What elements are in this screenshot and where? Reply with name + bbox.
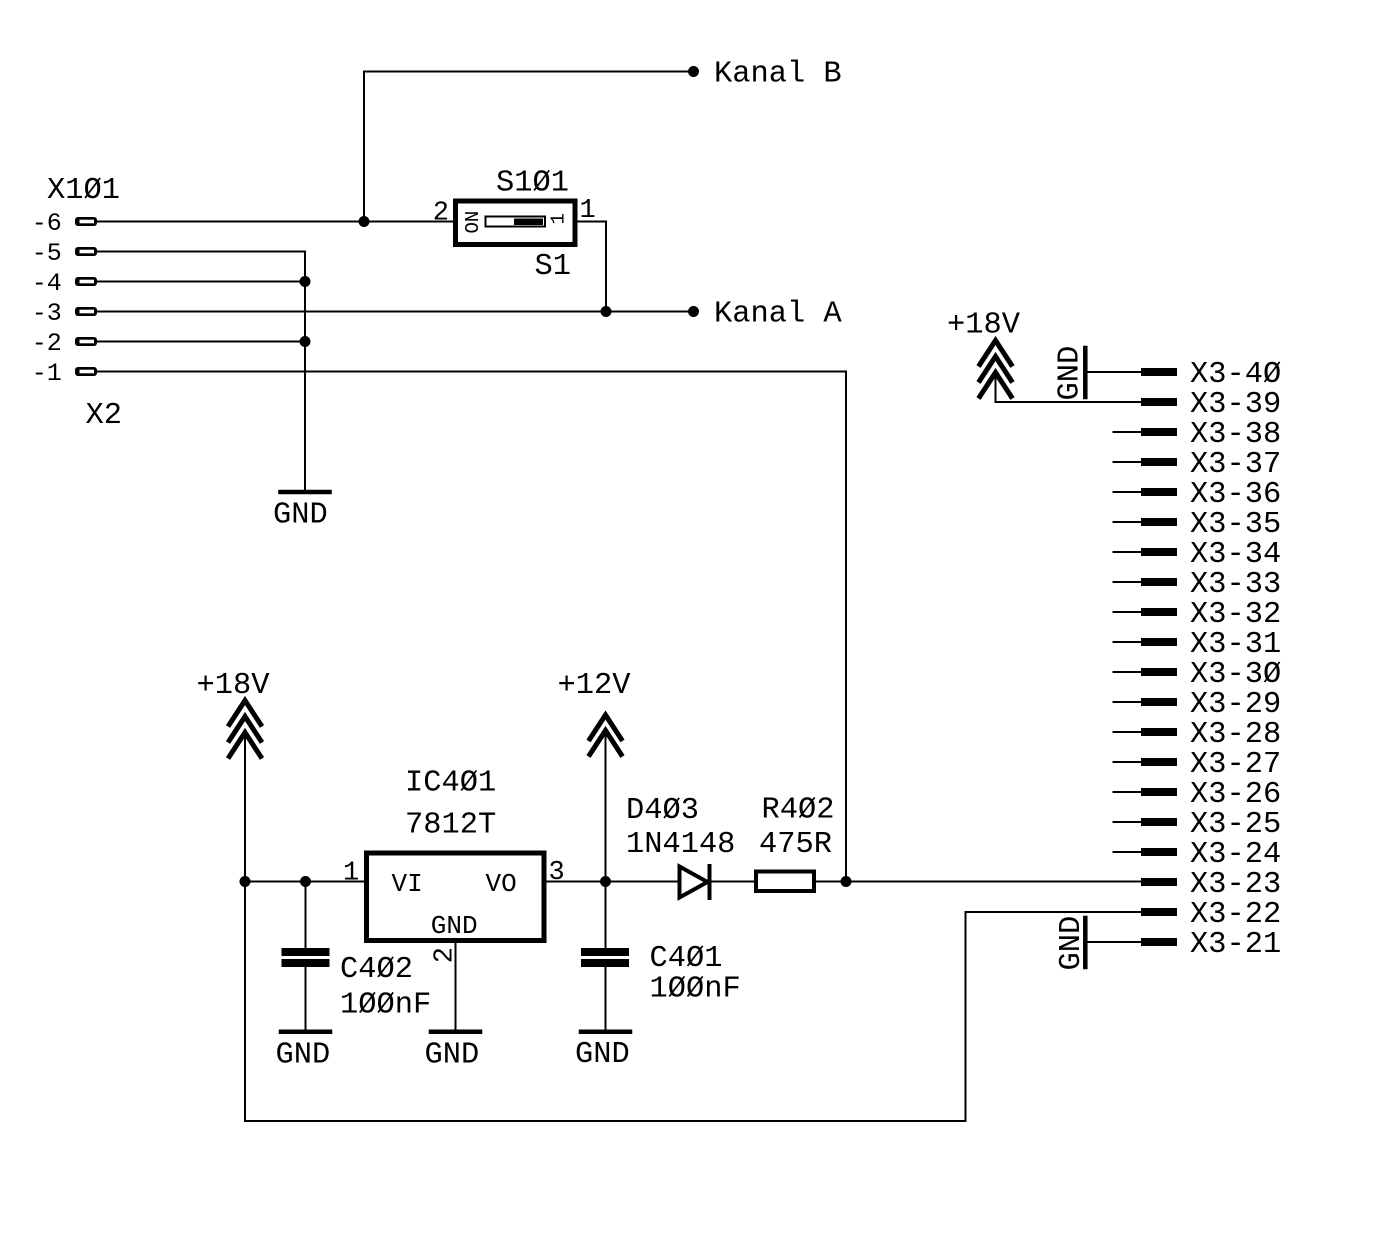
connector X101 pin -2 pad [75, 337, 97, 346]
wire stub X3-26 [1114, 791, 1142, 793]
svg-text:X3-23: X3-23 [1190, 868, 1281, 902]
svg-text:1N4148: 1N4148 [626, 828, 735, 862]
svg-text:X2: X2 [86, 399, 122, 433]
wire [605, 967, 607, 1030]
svg-text:3: 3 [549, 858, 565, 888]
power symbol +18V arrow [979, 341, 1013, 367]
connector X3 pin X3-30 pad [1141, 668, 1177, 676]
svg-text:X3-38: X3-38 [1190, 418, 1281, 452]
svg-text:-2: -2 [32, 329, 62, 358]
wire [97, 252, 305, 490]
capacitor C402 plates [282, 948, 330, 956]
power symbol +12V arrow [589, 715, 623, 741]
wire [364, 72, 694, 222]
connector X3 pin X3-38 pad [1141, 428, 1177, 436]
wire stub X3-36 [1114, 491, 1142, 493]
node junction [600, 876, 611, 887]
svg-text:X1Ø1: X1Ø1 [47, 174, 120, 208]
connector X3 pin X3-40 pad [1141, 368, 1177, 376]
svg-text:X3-35: X3-35 [1190, 508, 1281, 542]
wire stub X3-31 [1114, 641, 1142, 643]
node Kanal A endpoint [688, 306, 699, 317]
wire [305, 882, 307, 949]
wire [578, 222, 607, 312]
wire [816, 881, 846, 883]
connector X3 pin X3-23 pad [1141, 878, 1177, 886]
wire stub X3-27 [1114, 761, 1142, 763]
svg-text:X3-22: X3-22 [1190, 898, 1281, 932]
ground symbol below C402 [281, 1030, 330, 1035]
svg-text:X3-28: X3-28 [1190, 718, 1281, 752]
switch S101 slider knob [514, 219, 543, 226]
node Kanal B endpoint [688, 66, 699, 77]
svg-text:X3-27: X3-27 [1190, 748, 1281, 782]
wire [97, 341, 305, 343]
svg-text:GND: GND [276, 1039, 331, 1073]
svg-text:X3-21: X3-21 [1190, 928, 1281, 962]
svg-text:-6: -6 [32, 209, 62, 238]
svg-text:2: 2 [433, 199, 449, 229]
connector X101 pin -5 pad [75, 247, 97, 256]
connector X3 pin X3-33 pad [1141, 578, 1177, 586]
wire [245, 881, 364, 883]
svg-text:X3-24: X3-24 [1190, 838, 1281, 872]
connector X3 pin X3-39 pad [1141, 398, 1177, 406]
svg-text:X3-37: X3-37 [1190, 448, 1281, 482]
svg-text:+12V: +12V [558, 669, 632, 703]
svg-text:S1Ø1: S1Ø1 [496, 167, 569, 201]
svg-text:1ØØnF: 1ØØnF [650, 973, 741, 1007]
wire stub X3-32 [1114, 611, 1142, 613]
wire [547, 881, 606, 883]
regulator IC401 body [367, 853, 545, 941]
wire stub X3-30 [1114, 671, 1142, 673]
wire stub X3-25 [1114, 821, 1142, 823]
svg-text:X3-36: X3-36 [1190, 478, 1281, 512]
connector X3 pin X3-27 pad [1141, 758, 1177, 766]
wire stub X3-28 [1114, 731, 1142, 733]
svg-text:GND: GND [425, 1039, 480, 1073]
svg-text:1ØØnF: 1ØØnF [340, 989, 431, 1023]
node junction [300, 336, 311, 347]
svg-text:ON: ON [462, 211, 484, 234]
svg-text:R4Ø2: R4Ø2 [762, 794, 835, 828]
node junction [841, 876, 852, 887]
svg-text:475R: 475R [759, 828, 832, 862]
svg-text:-3: -3 [32, 299, 62, 328]
wire stub X3-37 [1114, 461, 1142, 463]
connector X3 pin X3-32 pad [1141, 608, 1177, 616]
svg-text:-4: -4 [32, 269, 62, 298]
switch S101 slider slot [486, 217, 546, 227]
ground symbol below C401 [581, 1030, 630, 1035]
svg-text:GND: GND [1055, 916, 1089, 971]
wire [606, 881, 679, 883]
svg-text:+18V: +18V [197, 669, 271, 703]
svg-text:X3-3Ø: X3-3Ø [1190, 658, 1281, 692]
svg-text:7812T: 7812T [405, 809, 496, 843]
wire [97, 372, 846, 883]
svg-text:X3-4Ø: X3-4Ø [1190, 358, 1281, 392]
wire [1087, 371, 1141, 373]
connector X101 pin -1 pad [75, 367, 97, 376]
node junction [240, 876, 251, 887]
svg-text:X3-39: X3-39 [1190, 388, 1281, 422]
connector X3 pin X3-29 pad [1141, 698, 1177, 706]
svg-text:-1: -1 [32, 359, 62, 388]
connector X3 pin X3-31 pad [1141, 638, 1177, 646]
wire stub X3-29 [1114, 701, 1142, 703]
wire [605, 732, 607, 882]
wire stub X3-34 [1114, 551, 1142, 553]
node junction [359, 216, 370, 227]
wire stub X3-33 [1114, 581, 1142, 583]
connector X3 pin X3-26 pad [1141, 788, 1177, 796]
node junction [601, 306, 612, 317]
svg-text:S1: S1 [535, 250, 571, 284]
ground symbol below IC401 [431, 1030, 480, 1035]
wire [97, 221, 453, 223]
svg-text:C4Ø1: C4Ø1 [650, 942, 723, 976]
wire [605, 882, 607, 949]
node junction [300, 876, 311, 887]
svg-text:X3-31: X3-31 [1190, 628, 1281, 662]
svg-text:Kanal A: Kanal A [714, 298, 842, 332]
svg-text:X3-32: X3-32 [1190, 598, 1281, 632]
svg-text:C4Ø2: C4Ø2 [340, 953, 413, 987]
wire [245, 734, 1141, 1121]
wire stub X3-38 [1114, 431, 1142, 433]
connector X101 pin -6 pad [75, 217, 97, 226]
wire stub X3-24 [1114, 851, 1142, 853]
wire [97, 281, 305, 283]
ground symbol below X101 [281, 490, 330, 495]
svg-text:X3-33: X3-33 [1190, 568, 1281, 602]
svg-text:1: 1 [343, 859, 359, 889]
wire stub X3-35 [1114, 521, 1142, 523]
ground symbol at X3-21 [1083, 918, 1088, 967]
svg-text:1: 1 [548, 213, 570, 224]
connector X3 pin X3-28 pad [1141, 728, 1177, 736]
capacitor C401 plates [581, 948, 629, 956]
svg-text:X3-26: X3-26 [1190, 778, 1281, 812]
power symbol +18V arrow left [228, 701, 262, 727]
connector X101 pin -4 pad [75, 277, 97, 286]
svg-text:+18V: +18V [947, 309, 1021, 343]
svg-text:GND: GND [431, 911, 478, 941]
resistor R402 body [756, 872, 814, 892]
svg-text:GND: GND [575, 1038, 630, 1072]
connector X3 pin X3-35 pad [1141, 518, 1177, 526]
switch S101 body [456, 201, 576, 245]
svg-text:GND: GND [1054, 346, 1088, 401]
svg-text:X3-29: X3-29 [1190, 688, 1281, 722]
svg-text:VI: VI [392, 869, 423, 899]
connector X101 pin -3 pad [75, 307, 97, 316]
connector X3 pin X3-24 pad [1141, 848, 1177, 856]
wire [1087, 941, 1141, 943]
connector X3 pin X3-25 pad [1141, 818, 1177, 826]
wire [711, 881, 754, 883]
connector X3 pin X3-22 pad [1141, 908, 1177, 916]
connector X3 pin X3-34 pad [1141, 548, 1177, 556]
svg-text:X3-25: X3-25 [1190, 808, 1281, 842]
wire [846, 881, 1141, 883]
connector X3 pin X3-36 pad [1141, 488, 1177, 496]
ground symbol at X3-40 [1083, 348, 1088, 397]
connector X3 pin X3-21 pad [1141, 938, 1177, 946]
svg-text:IC4Ø1: IC4Ø1 [405, 767, 496, 801]
connector X3 pin X3-37 pad [1141, 458, 1177, 466]
svg-text:X3-34: X3-34 [1190, 538, 1281, 572]
svg-text:Kanal B: Kanal B [714, 58, 842, 92]
svg-text:-5: -5 [32, 239, 62, 268]
svg-text:VO: VO [486, 869, 517, 899]
wire [97, 311, 694, 313]
wire [455, 943, 457, 1030]
wire [996, 374, 1142, 402]
diode D403 symbol [680, 867, 708, 898]
node junction [300, 276, 311, 287]
svg-text:D4Ø3: D4Ø3 [626, 794, 699, 828]
wire [305, 967, 307, 1030]
svg-text:GND: GND [273, 499, 328, 533]
